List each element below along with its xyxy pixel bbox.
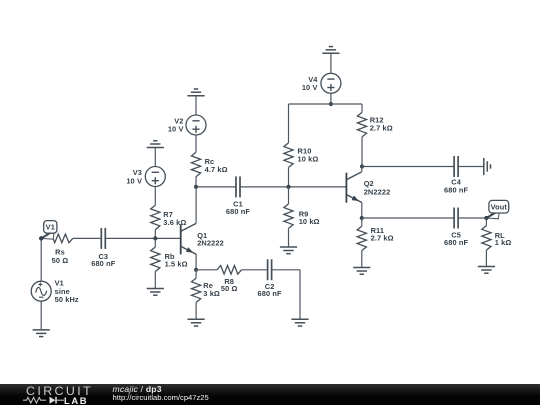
wire: [458, 217, 486, 219]
capacitor C4: [453, 156, 455, 177]
node collector node Q1: [194, 185, 198, 189]
wire: [288, 104, 290, 143]
svg-text:50 Ω: 50 Ω: [52, 256, 69, 265]
ground: [280, 246, 297, 248]
ground: [188, 318, 205, 320]
node emitter node Q2: [360, 216, 364, 220]
svg-text:2.7 kΩ: 2.7 kΩ: [370, 124, 393, 133]
node base node Q2: [286, 185, 290, 189]
wire emitter Q2: [361, 202, 363, 218]
ground: [33, 329, 50, 331]
ground: [353, 267, 370, 269]
ground: [187, 95, 204, 97]
svg-text:10 V: 10 V: [302, 83, 318, 92]
wire: [362, 166, 454, 168]
node supply node: [329, 102, 333, 106]
CircuitLab logo: [26, 384, 93, 398]
resistor Re: [192, 278, 201, 302]
wire: [361, 137, 363, 167]
wire: [330, 93, 332, 104]
svg-text:3.6 kΩ: 3.6 kΩ: [163, 218, 186, 227]
resistor R10: [284, 143, 293, 168]
svg-text:10 V: 10 V: [168, 125, 184, 134]
wire: [105, 237, 180, 239]
wire: [40, 238, 42, 281]
wire supply rail: [289, 103, 363, 105]
wire: [458, 166, 484, 168]
voltage source V3: [145, 167, 165, 187]
svg-text:1 kΩ: 1 kΩ: [495, 238, 512, 247]
svg-text:50 kHz: 50 kHz: [55, 295, 79, 304]
wire: [40, 301, 42, 330]
wire emitter Q1: [195, 254, 197, 270]
wire: [73, 237, 102, 239]
wire: [361, 251, 363, 268]
voltage source V4: [321, 73, 341, 93]
capacitor C2: [267, 259, 269, 280]
wire: [288, 228, 290, 247]
wire: [361, 104, 363, 112]
svg-text:Vout: Vout: [491, 202, 508, 211]
resistor R9: [284, 204, 293, 229]
probe V1: [41, 231, 54, 240]
svg-text:2.7 kΩ: 2.7 kΩ: [371, 234, 394, 243]
wire: [154, 272, 156, 289]
node probe-junction: [39, 236, 43, 240]
resistor Rc: [191, 152, 200, 177]
wire: [195, 270, 197, 278]
capacitor C1: [235, 176, 237, 197]
wire: [154, 238, 156, 247]
transistor Q1: [180, 224, 182, 254]
wire: [41, 237, 47, 239]
wire: [288, 187, 290, 204]
voltage source V2: [186, 115, 206, 135]
resistor R11: [357, 226, 366, 250]
svg-text:V1: V1: [46, 223, 55, 232]
wire collector Q2: [361, 167, 363, 172]
ground: [147, 147, 164, 149]
wire: [154, 187, 156, 206]
svg-text:2N2222: 2N2222: [364, 187, 391, 196]
svg-text:10 V: 10 V: [126, 177, 142, 186]
wire: [330, 53, 332, 73]
wire: [272, 269, 300, 271]
node bias junction: [153, 236, 157, 240]
svg-text:3 kΩ: 3 kΩ: [203, 289, 220, 298]
svg-text:50 Ω: 50 Ω: [221, 284, 238, 293]
svg-text:4.7 kΩ: 4.7 kΩ: [205, 165, 228, 174]
probe Vout: [486, 211, 499, 219]
wire: [240, 186, 346, 188]
svg-text:10 kΩ: 10 kΩ: [299, 217, 320, 226]
wire: [362, 217, 454, 219]
svg-text:2N2222: 2N2222: [197, 239, 224, 248]
wire: [196, 269, 217, 271]
wire: [195, 96, 197, 115]
wire: [154, 230, 156, 239]
wire: [154, 148, 156, 167]
resistor RL: [485, 218, 487, 226]
svg-text:1.5 kΩ: 1.5 kΩ: [165, 259, 188, 268]
svg-text:680 nF: 680 nF: [444, 238, 468, 247]
node collector node Q2: [360, 164, 364, 168]
ground: [478, 266, 495, 268]
wire: [195, 177, 197, 187]
svg-text:10 kΩ: 10 kΩ: [298, 155, 319, 164]
wire: [299, 270, 301, 320]
wire: [485, 250, 487, 266]
wire: [288, 167, 290, 187]
svg-text:680 nF: 680 nF: [258, 289, 282, 298]
svg-text:680 nF: 680 nF: [91, 259, 115, 268]
wire: [195, 302, 197, 319]
wire: [361, 218, 363, 226]
capacitor C3: [100, 228, 102, 249]
resistor Rb: [151, 247, 160, 272]
ground right-facing: [483, 158, 485, 175]
ground: [291, 318, 308, 320]
wire collector Q1: [195, 187, 197, 223]
ground: [147, 288, 164, 290]
transistor Q2: [345, 173, 347, 203]
wire: [195, 135, 197, 152]
resistor R8: [217, 266, 242, 275]
wire: [196, 186, 236, 188]
node emitter node Q1: [194, 268, 198, 272]
resistor R12: [357, 112, 366, 136]
wire: [242, 269, 268, 271]
svg-text:680 nF: 680 nF: [226, 207, 250, 216]
svg-text:680 nF: 680 nF: [444, 185, 468, 194]
capacitor C5: [453, 208, 455, 229]
resistor R7: [151, 205, 160, 229]
resistor Rs: [47, 234, 73, 243]
footer bar: [0, 384, 540, 405]
voltage source V1 (sine): [31, 281, 51, 301]
ground: [322, 52, 339, 54]
